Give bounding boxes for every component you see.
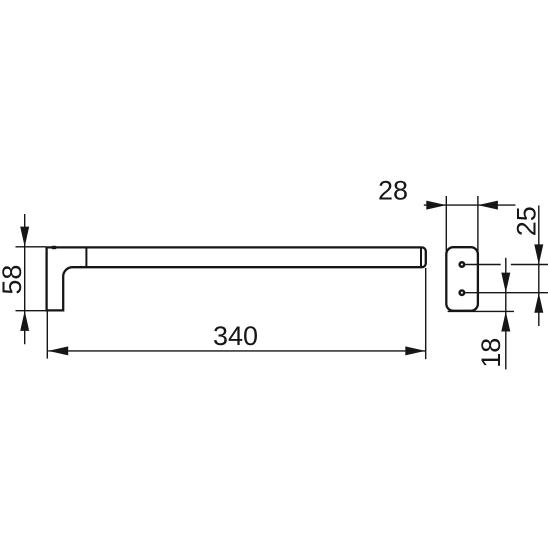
dim 340: dimension line: [48, 350, 425, 352]
svg-text:58: 58: [0, 265, 27, 295]
svg-text:340: 340: [213, 321, 258, 351]
dim 25: upper arrow (down): [534, 244, 543, 264]
dim 25: lower arrow (up): [534, 293, 543, 313]
dim 58: top extension line: [16, 246, 47, 248]
svg-text:18: 18: [476, 338, 506, 368]
dim 28: right arrow (points left): [478, 201, 498, 210]
dim 340: right arrow: [405, 346, 425, 355]
dim 340: left arrow: [48, 346, 68, 355]
dim 58: bottom arrow (up): [20, 311, 29, 331]
dim 28: left arrow (points right): [426, 201, 446, 210]
dim 340: left extension line: [46, 312, 48, 359]
dim 28: right extension line: [477, 196, 479, 258]
leader from upper hole: [465, 264, 548, 266]
dim 18: lower arrow (up): [501, 311, 510, 331]
side view: end cap line: [420, 247, 422, 267]
dim 18: upper arrow (down): [501, 273, 510, 293]
front view: upper screw hole: [458, 261, 465, 268]
side view: towel bar outline: [47, 247, 426, 310]
dim 25: dimension line: [538, 206, 540, 327]
side view: bracket/bar joint line: [85, 247, 87, 267]
dim 18: dimension line: [505, 258, 507, 370]
dim 58: top arrow (down): [20, 227, 29, 247]
front view: wall bracket plate: [446, 247, 478, 311]
dim 340: right extension line: [425, 268, 427, 359]
bottom extension line of front view: [448, 310, 514, 312]
svg-text:28: 28: [378, 176, 408, 206]
dim 58: bottom extension line: [16, 310, 47, 312]
dim 28: dimension line with tails: [424, 204, 516, 206]
dim 28: left extension line: [445, 196, 447, 258]
front view: lower screw hole: [458, 289, 465, 296]
dim 58: dimension line: [24, 214, 26, 344]
leader from lower hole: [465, 292, 548, 294]
side view: small mark on top edge: [52, 246, 56, 249]
svg-text:25: 25: [511, 206, 541, 236]
